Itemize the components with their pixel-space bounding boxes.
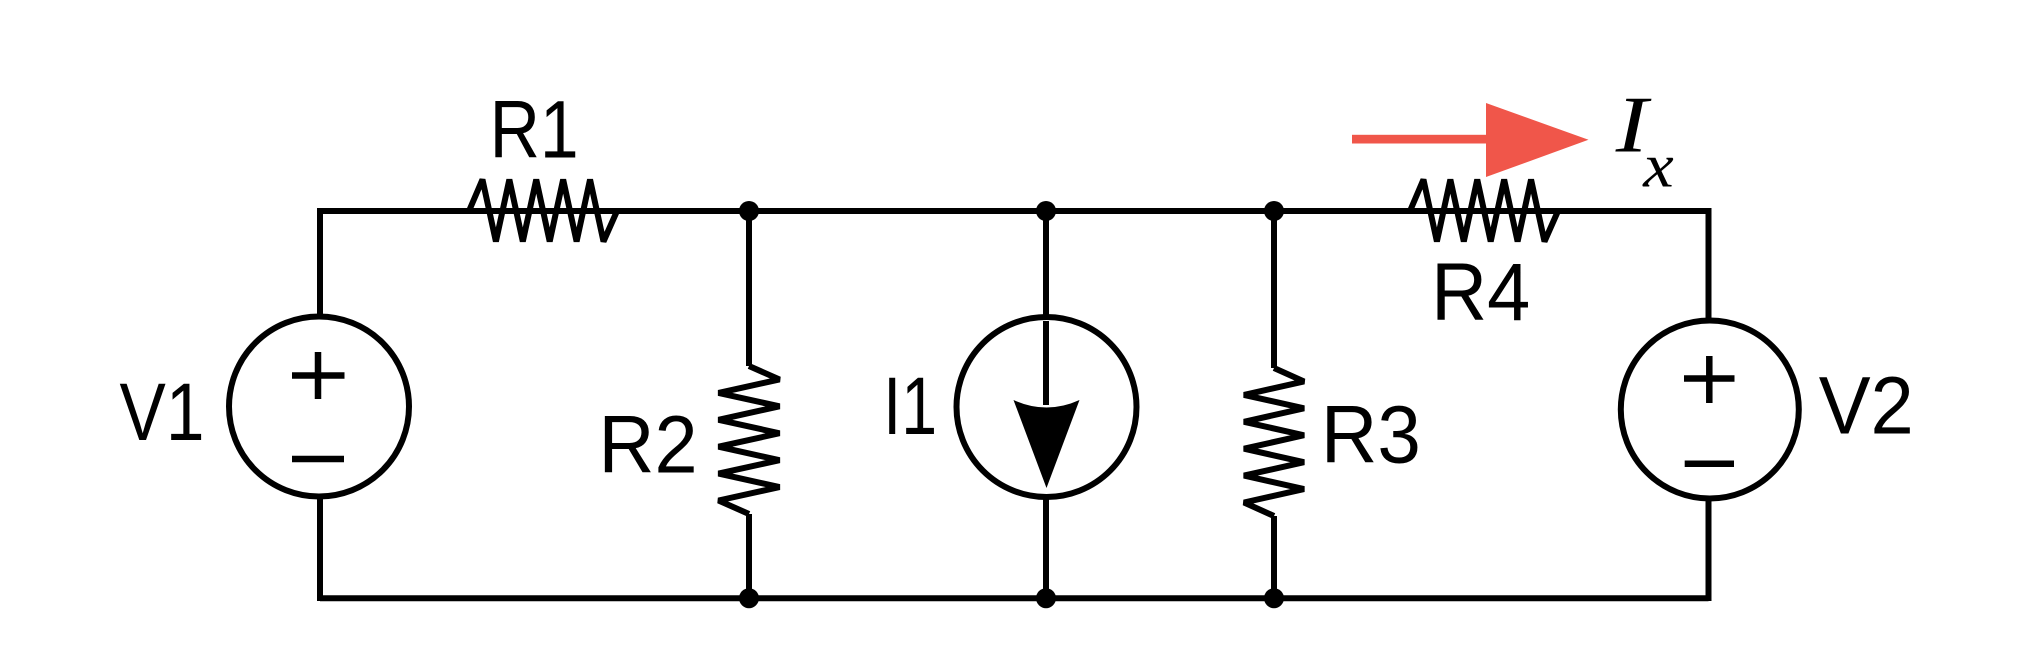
node dot top R3 <box>1264 201 1284 221</box>
wire top rail <box>320 208 1709 214</box>
current arrow Ix shaft (red) <box>1352 135 1487 144</box>
resistor R4 <box>1410 180 1558 242</box>
svg-text:R1: R1 <box>490 84 579 176</box>
node dot bottom I1 <box>1036 588 1056 608</box>
node dot bottom R3 <box>1264 588 1284 608</box>
wire right branch <box>1706 208 1712 601</box>
current arrow Ix head (red) <box>1486 103 1589 177</box>
V2 plus sign <box>1684 356 1735 403</box>
svg-text:R2: R2 <box>599 399 698 490</box>
wire left branch <box>317 208 323 601</box>
V2 minus sign <box>1685 461 1734 468</box>
V1 minus sign <box>292 456 344 463</box>
wire bottom rail <box>320 595 1709 601</box>
wire R2 branch <box>746 208 752 366</box>
voltage source V2 circle <box>1621 321 1799 499</box>
node dot top R2 <box>739 201 759 221</box>
svg-text:R4: R4 <box>1431 246 1530 337</box>
resistor R3 <box>1244 368 1304 516</box>
svg-text:x: x <box>1642 131 1674 201</box>
I1 arrow shaft <box>1043 321 1049 405</box>
node dot top I1 <box>1036 201 1056 221</box>
svg-text:V1: V1 <box>120 367 205 459</box>
V1 plus sign <box>292 352 345 399</box>
voltage source V1 circle <box>229 317 409 497</box>
wire I1 branch upper <box>1043 208 1049 405</box>
wire R3 branch <box>1271 208 1277 368</box>
wire R3 lower lead <box>1271 516 1277 598</box>
current source I1 circle <box>957 317 1137 497</box>
svg-text:R3: R3 <box>1321 388 1421 480</box>
svg-text:I1: I1 <box>883 360 937 452</box>
resistor R2 <box>719 366 780 514</box>
resistor R1 <box>469 180 617 242</box>
svg-text:V2: V2 <box>1819 360 1914 451</box>
I1 arrowhead <box>1014 400 1080 488</box>
wire R2 lower lead <box>746 514 752 598</box>
wire I1 lower lead <box>1043 496 1049 598</box>
node dot bottom R2 <box>739 588 759 608</box>
